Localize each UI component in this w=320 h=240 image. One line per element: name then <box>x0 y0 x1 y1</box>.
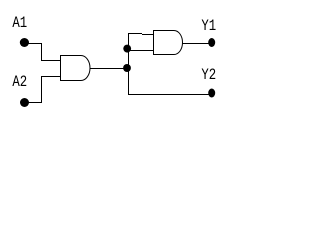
svg-text:Y2: Y2 <box>201 66 216 84</box>
svg-text:A2: A2 <box>12 73 27 91</box>
svg-text:A1: A1 <box>12 14 27 32</box>
svg-text:Y1: Y1 <box>201 17 216 35</box>
